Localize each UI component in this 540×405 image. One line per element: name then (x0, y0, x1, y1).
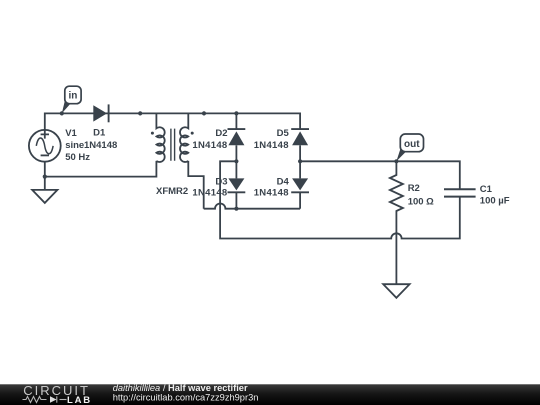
svg-text:50 Hz: 50 Hz (65, 152, 90, 163)
svg-text:V1: V1 (65, 128, 77, 139)
svg-text:C1: C1 (480, 184, 493, 195)
svg-text:LAB: LAB (67, 395, 92, 405)
svg-text:1N4148: 1N4148 (254, 140, 289, 151)
svg-text:http://circuitlab.com/ca7zz9zh: http://circuitlab.com/ca7zz9zh9pr3n (113, 393, 259, 403)
svg-text:1N4148: 1N4148 (192, 188, 227, 199)
svg-text:1N4148: 1N4148 (192, 140, 227, 151)
svg-text:XFMR2: XFMR2 (156, 186, 188, 197)
svg-text:D2: D2 (215, 128, 227, 139)
svg-text:100 Ω: 100 Ω (408, 197, 434, 208)
svg-text:D3: D3 (215, 177, 227, 188)
svg-text:out: out (404, 139, 420, 150)
svg-text:R2: R2 (408, 183, 420, 194)
svg-text:100 µF: 100 µF (480, 196, 510, 207)
svg-text:D5: D5 (277, 128, 290, 139)
svg-text:sine: sine (65, 140, 84, 151)
svg-text:1N4148: 1N4148 (254, 188, 289, 199)
svg-text:1N4148: 1N4148 (84, 140, 117, 151)
svg-text:D4: D4 (277, 177, 290, 188)
svg-text:in: in (68, 91, 77, 102)
svg-text:D1: D1 (93, 128, 106, 139)
